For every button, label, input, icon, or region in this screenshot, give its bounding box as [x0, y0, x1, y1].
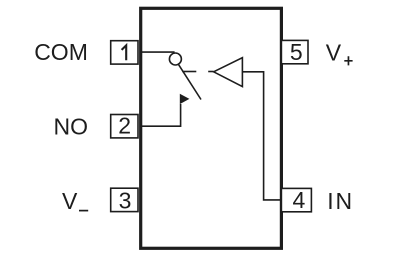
- svg-text:NO: NO: [54, 114, 89, 140]
- svg-text:3: 3: [119, 187, 132, 213]
- svg-text:V: V: [62, 188, 78, 214]
- svg-text:IN: IN: [327, 188, 354, 214]
- svg-text:2: 2: [118, 112, 131, 138]
- svg-text:5: 5: [290, 39, 303, 65]
- svg-text:4: 4: [293, 187, 306, 213]
- svg-text:V: V: [326, 40, 342, 66]
- svg-text:COM: COM: [34, 39, 88, 65]
